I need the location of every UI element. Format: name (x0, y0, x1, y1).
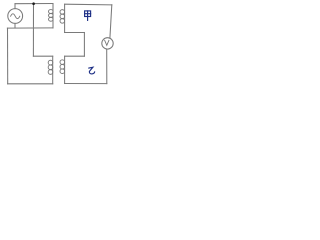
wire: middle link horizontal y=56.2 (65, 55, 85, 57)
wire: bottom-right bottom horizontal (y=83.5) (65, 83, 107, 85)
inductor L2 loops (48, 60, 53, 65)
wire: right vertical upper (above voltmeter) (110, 5, 112, 39)
label 甲 (transformer A) drawn as strokes (85, 11, 91, 21)
wire: branch vertical x=33.5 (32, 4, 34, 57)
wire: top-right horizontal (65, 3, 112, 6)
wire: bottom-left horizontal (y=28) (7, 27, 53, 29)
inductor L3 (transformer 甲 secondary) spine (64, 4, 66, 32)
wire: top-left horizontal (15, 3, 53, 5)
label 乙 (transformer B) drawn as strokes (89, 67, 95, 74)
wire: middle link vertical x=84.4 (83, 33, 85, 57)
background (0, 0, 117, 92)
inductor L1 (transformer 甲 primary) spine (52, 4, 54, 29)
wire: left outer vertical x=7.5 (7, 28, 9, 84)
inductor L2 (transformer 乙 primary) spine (52, 56, 54, 84)
wire: branch horizontal to lower primary (33, 55, 52, 57)
wire: bottom-left bottom horizontal (y=83.8) (8, 83, 53, 85)
wire: middle link horizontal y=32.5 (65, 32, 85, 34)
inductor L4 (transformer 乙 secondary) spine (64, 56, 66, 83)
wire: AC bottom stub (14, 23, 16, 28)
AC source sine wave (11, 14, 20, 19)
inductor L3 loops (60, 10, 65, 15)
wire: AC top stub (14, 4, 16, 9)
wire: right vertical lower (below voltmeter) (106, 49, 108, 84)
junction node dot (32, 2, 35, 5)
voltmeter V letter (105, 40, 109, 45)
inductor L4 loops (60, 60, 65, 65)
AC source G1 circle (8, 9, 23, 24)
inductor L1 loops (49, 10, 54, 14)
voltmeter V1 circle (102, 38, 113, 49)
